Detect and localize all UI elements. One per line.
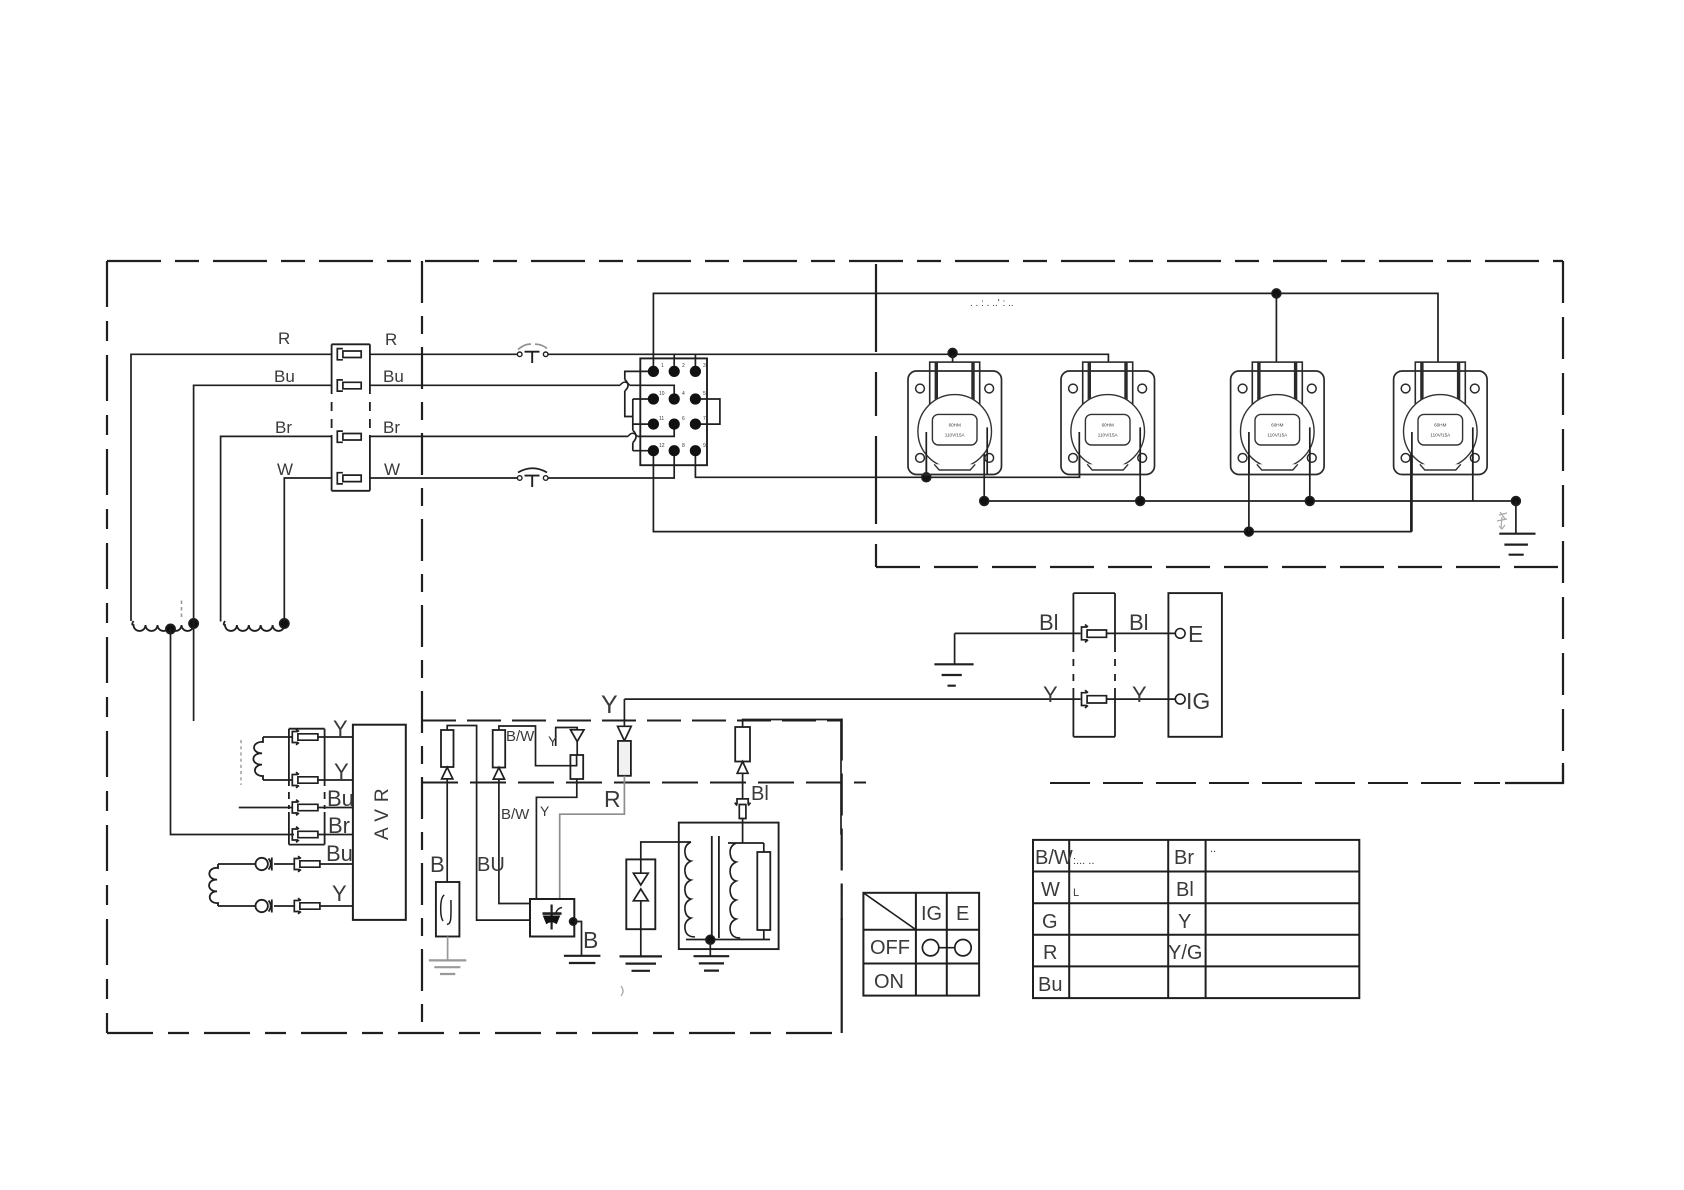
dashed enclosure: receptacle panel left edge [875, 264, 877, 567]
node: neutral junction receptacle 2 [1136, 497, 1145, 506]
node: neutral bus to chassis ground [1512, 497, 1521, 506]
wire: Br from winding L2 left end up to connector [221, 436, 332, 621]
hop arc of Br line [628, 433, 638, 436]
wire: T1 to ground [709, 940, 711, 956]
terminal 1-2 [669, 366, 680, 377]
circuit breaker CB2 (W line) [517, 468, 548, 487]
wire: W from winding L2 right end up to connector [284, 478, 331, 621]
frame-ground glyph [1497, 512, 1507, 529]
wire: junction down to receptacle 3 top [1275, 293, 1277, 386]
svg-text:110V/15A: 110V/15A [1267, 433, 1288, 438]
svg-text:7: 7 [703, 416, 706, 422]
wire: receptacle 4 left pin [1411, 431, 1413, 532]
terminal 1-1 [648, 366, 659, 377]
svg-text:6: 6 [682, 416, 685, 422]
svg-text:Br: Br [383, 418, 400, 437]
svg-text:Y/G: Y/G [1168, 942, 1202, 964]
terminal 2-3 [690, 393, 701, 404]
resistor R4 [618, 741, 631, 776]
svg-text:Br: Br [1174, 847, 1194, 869]
svg-text:10: 10 [659, 391, 665, 397]
svg-text:B/W: B/W [1035, 847, 1073, 869]
svg-text:AVR: AVR [372, 781, 393, 840]
svg-text:W: W [277, 460, 293, 479]
dashed enclosure: generator unit bottom edge [107, 1032, 842, 1034]
resistor R1 [441, 730, 454, 767]
wire: junction down to receptacle 1 top [952, 354, 954, 386]
wire: T1 bottom bus [686, 930, 770, 940]
T1 primary winding [685, 842, 695, 937]
terminal 3-1 [648, 419, 659, 430]
T1 secondary winding [730, 843, 740, 938]
node: L1 tap junction [166, 624, 175, 633]
svg-text:W: W [1041, 879, 1060, 901]
core marks of winding L1 [181, 601, 183, 618]
wire: Bu2 row to AVR [274, 863, 353, 865]
connector J2 pin Y [1082, 690, 1107, 708]
T1 core bars [712, 836, 719, 938]
main winding L1 (R-Bu phase coil) [132, 621, 195, 631]
wire: R1 bottom to unit B [446, 779, 448, 882]
wire: Y3 row to AVR [274, 905, 353, 907]
exciter winding L3 [253, 737, 263, 780]
wire: L1 tap down to AVR Br terminal [171, 629, 295, 835]
svg-text:110V/15A: 110V/15A [945, 433, 966, 438]
wire: R from J1 to breaker CB1 [370, 353, 518, 355]
svg-text:BU: BU [477, 854, 505, 876]
svg-text:3: 3 [703, 363, 706, 369]
engine switch table [863, 893, 979, 996]
connector J2 pin Bl [1082, 625, 1107, 643]
wire: W from J1 to breaker CB2 [370, 477, 518, 479]
svg-text:Bu: Bu [274, 367, 295, 386]
wire: neutral bus linking receptacle right pins [984, 500, 1516, 502]
terminal 1-3 [690, 366, 701, 377]
dashed enclosure: control unit right edge [841, 719, 843, 921]
node: Q1 output [570, 918, 577, 925]
bullet connector on Bu2 row [256, 858, 268, 870]
ground (Q1 output B) [564, 956, 601, 963]
wire: stub into terminal 1-1 with hop over Bu line [625, 371, 654, 450]
faint pin numbers of TB1 [659, 363, 706, 449]
dashed enclosure: receptacle panel bottom divider [876, 566, 1563, 568]
wire: receptacle 2 right pin [1139, 426, 1141, 501]
diode pair D6 [626, 859, 655, 929]
svg-text:W: W [384, 460, 400, 479]
receptacle X4 [1394, 362, 1488, 474]
chassis ground [1499, 534, 1535, 555]
svg-text:Bu: Bu [327, 786, 354, 811]
wire: R2 top jog to D3 junction [499, 726, 577, 766]
wire: Q1 output B to ground [574, 922, 581, 956]
wire: R5 bottom to plug [742, 773, 744, 799]
pin Br of AVR connector [292, 827, 318, 843]
wire: plug into ignition coil [742, 819, 744, 823]
svg-text:Bu: Bu [326, 841, 353, 866]
svg-text:B: B [583, 927, 598, 953]
dashed rail: control section top [422, 720, 841, 722]
node: neutral bus left end [980, 497, 989, 506]
rating text of X3 [1267, 423, 1288, 438]
stray mark [621, 986, 623, 996]
svg-text:E: E [1188, 621, 1203, 647]
circuit breaker CB1 (R line) [517, 344, 548, 363]
svg-text:5: 5 [703, 391, 706, 397]
wire: T1 top link [728, 823, 764, 852]
svg-text:60HM: 60HM [1102, 423, 1114, 428]
terminal 4-2 [669, 445, 680, 456]
wire: Bu line into terminal 2-2 [370, 385, 674, 399]
svg-text:IG: IG [921, 903, 942, 925]
pin Y2 of AVR connector [292, 772, 318, 788]
pickup coil L4 [209, 864, 218, 906]
AVR connector block [289, 729, 325, 845]
plug on Bl lead of ignition coil [735, 799, 751, 819]
ground (D6) [620, 956, 663, 970]
svg-text:1: 1 [661, 363, 664, 369]
svg-text:60HM: 60HM [1271, 423, 1283, 428]
wire: R bus tee down to terminal 1-3 [694, 354, 696, 371]
svg-text:Y: Y [601, 691, 618, 719]
terminal 4-3 [690, 445, 701, 456]
wire: R bus tee down to terminal 1-2 [673, 354, 675, 371]
node: top bus junction above receptacle 3 [1272, 289, 1281, 298]
node: L1 right end junction [189, 619, 198, 628]
terminal dots of TB1 [648, 366, 701, 457]
svg-text:9: 9 [703, 443, 706, 449]
svg-text:B/W: B/W [501, 806, 530, 823]
svg-text:Y: Y [1132, 682, 1147, 707]
connector J1 pin Br [337, 431, 361, 442]
svg-text:12: 12 [659, 443, 665, 449]
wire: W from CB2 to terminal 4-2 [548, 451, 674, 478]
wire: terminal 4-3 down to mid bus [695, 431, 1079, 477]
wire: Br line into terminal 3-2 [370, 424, 674, 436]
svg-text:. . : . ..' : ..: . . : . ..' : .. [970, 298, 1014, 309]
pin Y3 [294, 898, 320, 914]
wire: Y2 row to AVR [318, 779, 353, 781]
wire: receptacle 4 right pin [1472, 426, 1474, 501]
wire: R2 bottom B/W to rectifier [499, 779, 530, 903]
svg-text::... ..: :... .. [1073, 855, 1094, 867]
wire: Bl to engine switch E [1107, 632, 1176, 634]
wire: stub column with hop over Br line [632, 399, 634, 451]
svg-text:R: R [604, 786, 621, 812]
dashed rail: control section mid [422, 782, 866, 784]
SCR symbol inside Q1 [550, 905, 552, 930]
wire: Bu row to AVR (stub from left) [239, 807, 292, 809]
svg-text:110V/15A: 110V/15A [1098, 433, 1119, 438]
diode arrow D1 under R1 [442, 767, 453, 779]
wire: R5 top to panel edge [743, 720, 841, 835]
main winding L2 (Br-W phase coil) [224, 621, 286, 631]
connector J1 pin Bu [337, 380, 361, 391]
svg-text:Y: Y [540, 803, 550, 819]
svg-text:Y: Y [334, 759, 349, 784]
wire: Y ignition line from diode stack to connector J2 [624, 698, 1080, 700]
node: R bus junction above receptacle 1 [948, 349, 957, 358]
ground (unit B, faded) [429, 960, 466, 974]
svg-text:11: 11 [659, 416, 664, 422]
terminal IG circle [1175, 694, 1185, 704]
connector J1 pin R [337, 349, 361, 360]
core marks of L3 [240, 740, 242, 785]
switch glyph inside unit B [441, 895, 451, 924]
svg-text:Bl: Bl [751, 783, 769, 805]
svg-text:2: 2 [682, 363, 685, 369]
wire: L4 top to bullet connector [218, 863, 255, 865]
bullet connector on Y3 row [256, 900, 268, 912]
wire: jumper terminal 2-3 to 3-3 [695, 399, 720, 424]
svg-text:R: R [385, 330, 397, 349]
gray lead of unit B to ground [447, 937, 449, 961]
pin Y1 of AVR connector [292, 729, 318, 745]
wire: receptacle 1 left pin [925, 431, 927, 477]
svg-text:Bu: Bu [1038, 974, 1062, 996]
engine switch terminal box [1168, 593, 1222, 737]
switch contact circles (OFF row) [922, 940, 938, 956]
connector J2 housing [1073, 593, 1115, 737]
T1 internal resistor [757, 852, 770, 930]
rating text of X4 [1430, 423, 1451, 438]
resistor R3 [570, 755, 583, 779]
wire: receptacle 3 right pin [1309, 426, 1311, 501]
diode D4 [618, 726, 632, 741]
wire: D6 bottom to ground [640, 929, 642, 956]
wire: R bus from CB1 to receptacle 2 top [548, 354, 1108, 386]
svg-text:IG: IG [1186, 688, 1210, 714]
svg-text:ON: ON [874, 971, 904, 993]
svg-text:Br: Br [328, 813, 350, 838]
wire: D3 top stub [556, 728, 578, 747]
svg-text:..: .. [1210, 843, 1216, 855]
svg-text:OFF: OFF [870, 937, 910, 959]
connector J1 housing [332, 344, 370, 491]
node: L2 right end junction [280, 619, 289, 628]
receptacle X3 [1231, 362, 1325, 474]
svg-text:E: E [956, 903, 969, 925]
wire: R from winding L1 up to connector [131, 354, 332, 621]
wire: L3 top to AVR connector [263, 736, 293, 738]
unit B (oil level switch) [436, 882, 460, 937]
diode D3 [571, 730, 585, 742]
dashed rail: panel box bottom right part [1050, 782, 1500, 784]
wire color legend table [1033, 840, 1359, 998]
svg-text:60HM: 60HM [949, 423, 961, 428]
wire: down to chassis ground [1515, 501, 1517, 534]
rating text of X1 [945, 423, 966, 438]
wire: Y to engine switch IG [1107, 698, 1176, 700]
terminal 4-1 [648, 445, 659, 456]
hop arc of stub over Bu line [625, 380, 628, 392]
wire: Y1 row to AVR [318, 736, 353, 738]
wire: R1 top to Bu feed of rectifier [447, 726, 530, 921]
dashed enclosure: generator unit left edge [106, 261, 108, 1033]
wire: R3 bottom Y wire to rectifier [536, 779, 576, 899]
svg-text:Y: Y [332, 881, 347, 906]
svg-text:L: L [1073, 887, 1079, 899]
wire: Bl from ground to connector J2 [955, 632, 1081, 634]
dashed enclosure: generator unit top edge [107, 260, 1563, 262]
svg-text:Bl: Bl [1129, 610, 1149, 635]
rectifier/SCR unit Q1 [530, 899, 574, 937]
svg-text:Y: Y [333, 716, 348, 741]
wire: D3 to R3 [576, 742, 578, 756]
terminal 2-1 [648, 393, 659, 404]
hop arc of stub over Br line [633, 430, 636, 442]
svg-text:Y: Y [548, 733, 558, 749]
wire: terminal 4-1 down to lower bus [653, 431, 1411, 532]
ground (T1) [694, 956, 730, 970]
wire: L3 bottom to AVR connector [263, 779, 293, 781]
svg-text:Br: Br [275, 418, 292, 437]
ground (engine stop circuit) [934, 664, 973, 685]
resistor R2 [493, 730, 506, 768]
receptacle X2 [1061, 362, 1155, 474]
wire: L4 bottom to bullet connector [218, 905, 255, 907]
rating text of X2 [1098, 423, 1119, 438]
dashed enclosure: panel right edge [1562, 261, 1564, 783]
svg-text:B/W: B/W [506, 728, 535, 745]
svg-text:G: G [1042, 911, 1058, 933]
hop arc of Bu line [620, 382, 630, 385]
wire: R4 bottom R wire to rectifier [560, 776, 625, 899]
svg-text:R: R [1043, 942, 1057, 964]
svg-text:110V/15A: 110V/15A [1430, 433, 1451, 438]
resistor R5 (Bl) [735, 727, 750, 762]
svg-text:8: 8 [682, 443, 685, 449]
svg-text:4: 4 [682, 391, 685, 397]
dashed divider between generator and control section [421, 261, 423, 1033]
svg-text:Bl: Bl [1176, 879, 1194, 901]
svg-text:Y: Y [1178, 911, 1191, 933]
svg-text:Bu: Bu [383, 367, 404, 386]
wire: Bl ground drop [954, 633, 956, 664]
ignition coil T1 box [679, 823, 779, 950]
node: T1 bottom junction [706, 935, 715, 944]
wire: receptacle 3 left pin [1248, 431, 1250, 532]
wire: Bu from L1 right end to connector, dangling tail below [194, 385, 332, 721]
wire: Y ignition feed down to diode D4 [623, 699, 625, 726]
AVR unit box [353, 725, 406, 920]
svg-text:Bl: Bl [1039, 610, 1059, 635]
connector J1 pin W [337, 473, 361, 484]
node: mid bus junction at receptacle 1 left pin [922, 473, 931, 482]
diode arrow D5 under R5 [737, 762, 748, 774]
svg-text:60HM: 60HM [1434, 423, 1446, 428]
terminal 3-3 [690, 419, 701, 430]
wire: receptacle 1 right pin [983, 426, 985, 501]
svg-text:R: R [278, 329, 290, 348]
terminal 3-2 [669, 419, 680, 430]
terminal block TB1 body [640, 358, 707, 465]
receptacle X1 [908, 362, 1002, 474]
svg-text:Y: Y [1043, 682, 1058, 707]
terminal 2-2 [669, 393, 680, 404]
terminal E circle [1175, 629, 1185, 639]
node: lower bus junction at receptacle 3 left pin [1245, 527, 1254, 536]
wire: top bus from terminal 1-1 over receptacles [653, 293, 1438, 386]
wire: D6 top into ignition coil [641, 842, 691, 859]
diode arrow D2 under R2 [493, 768, 504, 780]
node: neutral junction receptacle 3 [1305, 497, 1314, 506]
wire: Bu row plug to AVR [318, 807, 353, 809]
pin Bu of AVR connector [292, 800, 318, 816]
svg-text:B: B [430, 852, 445, 877]
pin Bu2 [294, 856, 320, 872]
wire: Br row to AVR [318, 834, 353, 836]
